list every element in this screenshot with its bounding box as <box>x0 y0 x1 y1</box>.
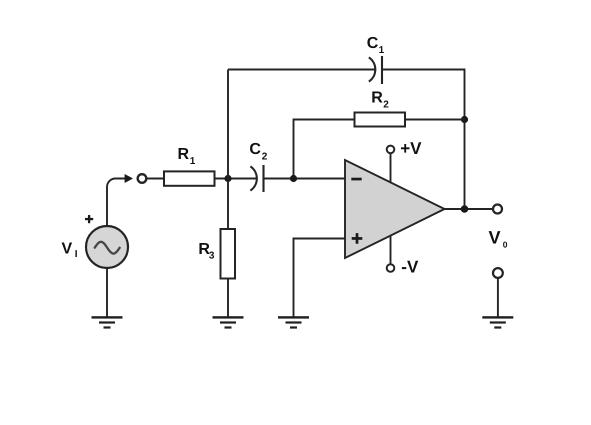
svg-text:R: R <box>371 90 383 107</box>
label V_I <box>62 241 78 261</box>
svg-text:C: C <box>249 141 261 158</box>
junction node C <box>461 116 468 123</box>
input terminal <box>138 174 147 183</box>
junction node A <box>224 175 231 182</box>
wire source top to arrow <box>107 178 125 226</box>
ground under R3 <box>213 316 244 328</box>
source V_I <box>86 226 128 268</box>
resistor R3 <box>221 229 236 279</box>
svg-text:2: 2 <box>383 100 389 111</box>
svg-text:C: C <box>367 35 379 52</box>
svg-text:-V: -V <box>401 257 419 276</box>
label -V <box>401 257 419 276</box>
label C2 <box>249 141 267 163</box>
-V supply pin <box>387 236 395 272</box>
ground at plus input <box>278 316 309 328</box>
output terminal <box>493 205 502 214</box>
+V supply pin <box>387 146 395 183</box>
svg-text:V: V <box>62 241 73 258</box>
output reference terminal <box>493 268 503 317</box>
svg-text:0: 0 <box>503 240 508 250</box>
svg-text:I: I <box>75 249 78 260</box>
wire source to ground <box>106 268 108 317</box>
junction node D <box>461 205 469 213</box>
label R2 <box>371 90 389 111</box>
junction node B <box>290 175 297 182</box>
wire C1 to right corner down to node C <box>382 70 465 120</box>
wire R2 to node C <box>405 119 465 121</box>
label V_0 <box>489 228 508 250</box>
svg-text:R: R <box>178 146 190 163</box>
wire node C to output node D <box>464 120 466 210</box>
wire op-amp output <box>445 208 493 210</box>
svg-text:V: V <box>489 228 501 248</box>
svg-text:3: 3 <box>209 251 215 262</box>
ground at output <box>482 316 513 328</box>
wire R3 to ground <box>227 279 229 318</box>
capacitor C2 <box>250 165 263 192</box>
resistor R1 <box>164 171 215 185</box>
label C1 <box>367 35 385 56</box>
arrow into input terminal <box>125 174 133 183</box>
capacitor C1 <box>369 56 382 84</box>
wire terminal to R1 <box>147 178 164 180</box>
op-amp U1 <box>345 160 445 258</box>
svg-text:1: 1 <box>190 156 196 167</box>
plus polarity mark <box>85 215 93 223</box>
wire R1 to C2 <box>215 178 257 180</box>
svg-text:1: 1 <box>379 45 385 56</box>
ground under source <box>92 316 123 328</box>
wire top feedback left to C1 <box>228 69 375 71</box>
wire op-amp plus input to ground <box>294 239 346 318</box>
svg-text:+V: +V <box>400 139 422 158</box>
wire node B up to R2 <box>294 120 355 179</box>
label R3 <box>198 241 215 262</box>
resistor R2 <box>355 113 406 127</box>
wire C2 to op-amp minus input <box>264 178 346 180</box>
label R1 <box>178 146 196 167</box>
label +V <box>400 139 422 158</box>
wire node A vertical (top corner to R3) <box>227 70 229 230</box>
svg-text:2: 2 <box>262 152 268 163</box>
